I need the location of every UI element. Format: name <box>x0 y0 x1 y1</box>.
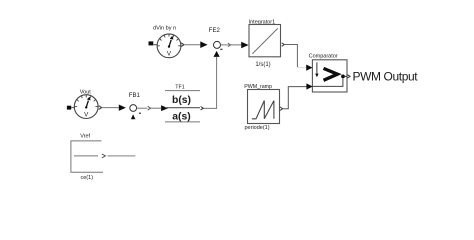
svg-text:FB1: FB1 <box>129 93 141 99</box>
Vref source block outline <box>71 141 103 172</box>
wire from Vref toward FB1 <box>108 155 136 157</box>
svg-text:FE2: FE2 <box>209 28 221 34</box>
arrowhead into FE2 <box>200 41 207 48</box>
PWM ramp source block <box>248 90 280 124</box>
wire FB1 to TF1 <box>137 107 148 109</box>
wire stub into G1 <box>153 44 157 46</box>
TF1 output chevron <box>201 107 204 110</box>
wire G1 to FE2 <box>184 44 200 46</box>
arrowhead into Comparator bottom input <box>306 83 312 89</box>
arrowhead into FB1 <box>119 105 126 111</box>
FE2 bottom input up-arrow <box>214 51 220 57</box>
svg-text:a(s): a(s) <box>172 112 190 123</box>
G2 output port chevron <box>99 106 102 110</box>
svg-text:ce(1): ce(1) <box>81 175 94 181</box>
voltmeter gauge G2 body <box>74 95 98 119</box>
arrowhead into Integrator1 <box>241 42 248 49</box>
Vref step icon <box>74 155 98 157</box>
svg-text:TF1: TF1 <box>175 85 184 91</box>
voltmeter gauge G2 input port square <box>67 106 71 110</box>
comparator internal bottom wire <box>313 78 343 86</box>
wire stub into G2 <box>71 107 74 109</box>
junction dot at comparator output <box>341 75 345 79</box>
comparator internal down-arrow <box>316 62 318 73</box>
integrator output chevron <box>282 43 285 46</box>
wire Integrator1 to Comparator top input <box>285 45 298 68</box>
integrator U1 box <box>249 25 281 57</box>
wire PWM_ramp to Comparator bottom input <box>280 107 283 111</box>
wire G2 to FB1 <box>102 107 119 109</box>
svg-text:b(s): b(s) <box>172 95 191 106</box>
FB1 bottom input up-arrow <box>131 114 136 119</box>
svg-text:periode(1): periode(1) <box>245 125 270 131</box>
G2 needle <box>86 101 88 108</box>
G1 output port chevron <box>181 43 184 47</box>
arrowhead into TF1 <box>161 105 168 111</box>
vertical wire from TF1 up to FE2 <box>203 57 216 109</box>
comparator U2 box <box>312 60 347 92</box>
wire FE2 to Integrator1 <box>221 44 242 46</box>
FE2 minus sign <box>220 48 222 50</box>
Vref output chevron <box>102 154 106 158</box>
summing junction FB1 <box>130 105 137 112</box>
svg-text:Comparator: Comparator <box>309 53 338 59</box>
voltmeter gauge G1 body <box>157 34 181 58</box>
svg-text:PWM Output: PWM Output <box>353 70 419 84</box>
summing junction FE2 <box>214 41 221 48</box>
TF1 fraction bar <box>165 107 200 109</box>
TF1 bottom rule <box>165 121 200 123</box>
voltmeter gauge G1 input port square <box>149 41 154 45</box>
svg-text:1/s(1): 1/s(1) <box>255 62 270 68</box>
svg-text:dVin by n: dVin by n <box>153 26 176 32</box>
arrowhead into Comparator top input <box>306 65 312 71</box>
comparator output wire <box>345 75 347 77</box>
sawtooth icon <box>252 101 274 119</box>
transfer function TF1 top rule <box>165 90 200 92</box>
integrator ramp icon <box>252 28 277 54</box>
comparator greater-than symbol <box>324 68 338 80</box>
FB1 minus sign <box>139 112 141 114</box>
svg-text:Vref: Vref <box>80 133 90 139</box>
G1 needle <box>169 40 171 47</box>
